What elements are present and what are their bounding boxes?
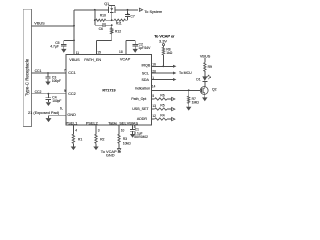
svg-text:R3: R3: [123, 137, 127, 141]
svg-text:VBIAS: VBIAS: [127, 121, 139, 125]
svg-text:12: 12: [152, 114, 156, 118]
svg-text:11: 11: [76, 51, 80, 55]
svg-text:Q1: Q1: [104, 2, 109, 6]
svg-text:3: 3: [98, 129, 100, 133]
svg-text:20: 20: [152, 69, 156, 73]
svg-text:100pF: 100pF: [52, 79, 61, 83]
svg-text:100pF: 100pF: [52, 99, 61, 103]
svg-text:7: 7: [64, 68, 66, 72]
svg-text:CC1: CC1: [35, 69, 42, 73]
svg-text:PATH_EN: PATH_EN: [84, 58, 101, 62]
svg-text:16: 16: [152, 63, 156, 67]
svg-text:4: 4: [75, 129, 77, 133]
svg-text:VCAP: VCAP: [120, 57, 131, 61]
svg-text:R4: R4: [160, 113, 164, 117]
svg-text:GND: GND: [106, 153, 115, 158]
svg-text:RT1719: RT1719: [102, 89, 115, 93]
svg-text:VBUS: VBUS: [34, 22, 45, 26]
svg-text:R9: R9: [208, 65, 212, 69]
svg-text:50V/0402: 50V/0402: [134, 135, 148, 139]
svg-text:14: 14: [152, 84, 156, 88]
svg-text:SCL: SCL: [142, 71, 149, 75]
svg-text:R1: R1: [78, 138, 82, 142]
svg-text:Path_Opt: Path_Opt: [131, 97, 146, 101]
svg-text:4.7µF: 4.7µF: [50, 44, 59, 48]
svg-text:C6: C6: [99, 27, 103, 31]
svg-text:1: 1: [152, 76, 154, 80]
svg-text:USB_SET: USB_SET: [132, 107, 149, 111]
svg-text:Type-C Receptacle: Type-C Receptacle: [25, 58, 30, 96]
svg-text:6,: 6,: [60, 107, 63, 111]
svg-text:R12: R12: [115, 29, 121, 33]
svg-text:PSEL1: PSEL1: [66, 121, 78, 125]
svg-text:Table_SEL: Table_SEL: [108, 121, 126, 125]
svg-text:10: 10: [121, 129, 125, 133]
svg-text:15: 15: [97, 51, 101, 55]
svg-text:R6: R6: [160, 93, 164, 97]
svg-text:1MΩ: 1MΩ: [192, 101, 200, 105]
svg-text:GND: GND: [67, 113, 76, 117]
svg-text:CC2: CC2: [68, 92, 76, 96]
svg-text:R11: R11: [116, 21, 122, 25]
svg-text:1kΩ: 1kΩ: [166, 51, 173, 55]
svg-text:9: 9: [64, 89, 66, 93]
svg-text:SDA: SDA: [142, 78, 150, 82]
svg-text:13: 13: [152, 104, 156, 108]
svg-text:21 (Exposed Pad): 21 (Exposed Pad): [28, 110, 60, 115]
svg-text:(2): (2): [127, 14, 130, 16]
svg-text:R5: R5: [160, 103, 164, 107]
svg-text:3.3V: 3.3V: [159, 38, 167, 43]
svg-text:R10: R10: [100, 13, 106, 17]
svg-text:D1: D1: [196, 78, 200, 82]
svg-text:CC2: CC2: [35, 90, 42, 94]
svg-text:To MCU: To MCU: [179, 71, 192, 75]
svg-text:VBUS: VBUS: [69, 58, 80, 62]
svg-text:VBUS: VBUS: [200, 55, 211, 59]
svg-text:R2: R2: [100, 138, 104, 142]
svg-text:18: 18: [119, 50, 123, 54]
svg-text:ADDR: ADDR: [137, 117, 148, 121]
svg-text:Indication: Indication: [135, 87, 150, 91]
svg-text:To System: To System: [144, 10, 162, 14]
svg-text:5: 5: [152, 94, 154, 98]
svg-text:PSEL2: PSEL2: [86, 121, 98, 125]
svg-text:1µF/16V: 1µF/16V: [138, 46, 151, 50]
svg-text:C7: C7: [130, 14, 134, 18]
svg-text:CC1: CC1: [68, 71, 76, 75]
svg-text:Q2: Q2: [212, 88, 217, 92]
svg-text:IRQB: IRQB: [142, 64, 151, 68]
svg-text:10kΩ: 10kΩ: [123, 142, 131, 146]
